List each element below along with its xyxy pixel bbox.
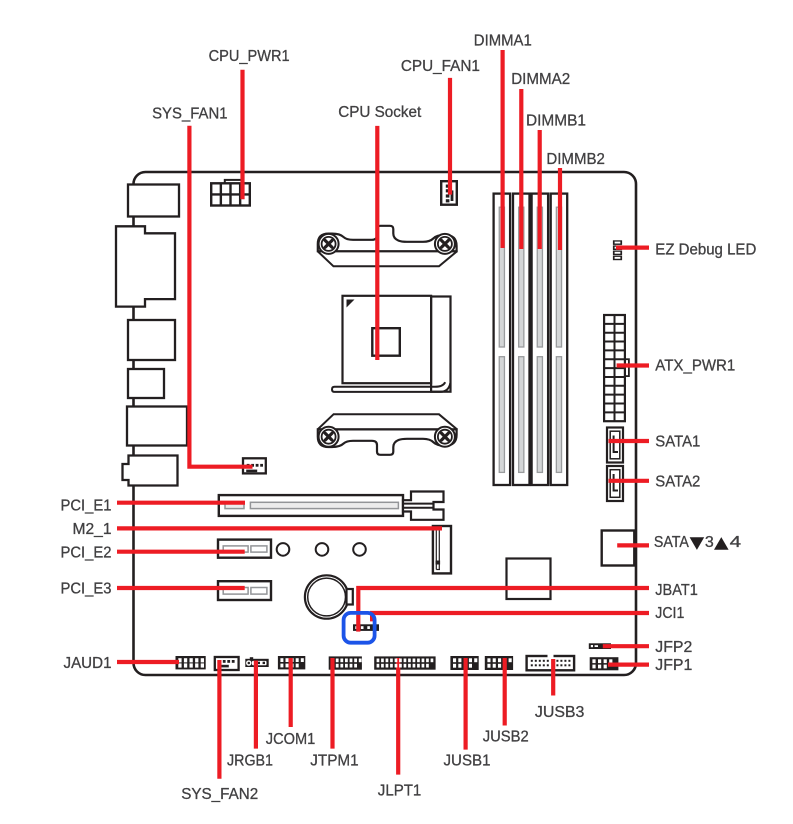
svg-text:SATA1: SATA1 [655, 434, 700, 451]
cpu retention bracket top [318, 226, 457, 266]
connector JCOM1 [278, 656, 305, 669]
connector JAUD1 [176, 656, 206, 669]
leader JBAT1 [358, 588, 649, 632]
svg-text:JTPM1: JTPM1 [310, 753, 359, 770]
leader JRGB1 [254, 661, 258, 749]
leader JCOM1 [289, 658, 293, 727]
leader CPU Socket [375, 126, 379, 360]
leader PCI_E3 [117, 586, 245, 590]
svg-text:JLPT1: JLPT1 [378, 782, 422, 799]
leader JUSB1 [464, 658, 468, 750]
svg-text:ATX_PWR1: ATX_PWR1 [655, 357, 735, 374]
connector SYS_FAN1 [243, 458, 266, 473]
leader ATX_PWR1 [617, 363, 649, 367]
mounting hole 2 [316, 543, 329, 556]
EZ Debug LED block [613, 240, 622, 260]
slot PCI_E1 [219, 492, 444, 520]
leader JUSB2 [503, 658, 507, 726]
svg-text:JFP1: JFP1 [655, 657, 692, 674]
leader EZ Debug LED [616, 246, 649, 250]
leader JAUD1 [117, 660, 179, 664]
svg-text:SATA2: SATA2 [655, 474, 700, 491]
svg-text:CPU_PWR1: CPU_PWR1 [209, 48, 290, 65]
svg-text:DIMMB2: DIMMB2 [546, 151, 605, 168]
DIMM slot DIMMB1 [532, 194, 549, 485]
svg-text:JUSB2: JUSB2 [483, 729, 529, 746]
svg-text:SATA: SATA [654, 534, 689, 551]
leader SYS_FAN2 [217, 660, 221, 779]
mounting hole 3 [353, 543, 366, 556]
connector JUSB2 [485, 656, 513, 670]
leader SATA3/4 [617, 543, 649, 547]
leader PCI_E1 [117, 501, 245, 505]
connector ATX_PWR1 [604, 315, 629, 421]
leader SYS_FAN1 [189, 126, 252, 467]
leader JLPT1 [396, 658, 400, 775]
JUSB3 pin dots (over nothing, under red) [531, 660, 571, 667]
svg-text:4: 4 [730, 534, 742, 551]
DIMM slot DIMMB2 [551, 194, 568, 485]
board outline [134, 172, 637, 675]
svg-text:DIMMA2: DIMMA2 [511, 71, 570, 88]
connector JRGB1 [245, 657, 268, 667]
svg-text:JBAT1: JBAT1 [655, 582, 698, 599]
slot PCI_E2 [218, 540, 271, 558]
slot PCI_E3 [218, 581, 271, 600]
connector JFP1 [590, 657, 619, 670]
svg-text:CPU Socket: CPU Socket [338, 104, 422, 121]
battery [305, 575, 353, 618]
svg-text:DIMMB1: DIMMB1 [526, 113, 586, 130]
connector JUSB3 [527, 654, 575, 670]
connector JUSB1 [450, 656, 478, 670]
svg-text:JCOM1: JCOM1 [266, 731, 316, 748]
leader DIMMB1 [538, 130, 542, 249]
io port box 1 [128, 185, 179, 217]
CPU socket [332, 296, 451, 392]
svg-text:SYS_FAN2: SYS_FAN2 [181, 786, 258, 803]
JLPT1 pins [377, 659, 434, 668]
connector CPU_FAN1 [441, 181, 457, 205]
svg-text:JFP2: JFP2 [655, 639, 692, 656]
svg-text:JAUD1: JAUD1 [64, 655, 112, 672]
connector SATA3/4 [602, 531, 635, 566]
jumper JBAT1/JCI1 pins [353, 624, 379, 631]
leader JFP2 [603, 644, 649, 648]
svg-text:EZ Debug LED: EZ Debug LED [655, 242, 756, 259]
svg-text:JUSB3: JUSB3 [535, 704, 585, 721]
connector SATA1 [607, 428, 623, 463]
svg-text:SYS_FAN1: SYS_FAN1 [152, 106, 228, 123]
connector CPU_PWR1 [211, 180, 250, 206]
label SATA3/4 [654, 534, 741, 551]
connector JTPM1 [329, 656, 362, 669]
leader CPU_PWR1 [240, 70, 244, 200]
connector JFP2 [589, 643, 611, 649]
DIMM slot DIMMA2 [513, 194, 530, 485]
leader M2_1 [117, 526, 442, 530]
leader DIMMA2 [519, 89, 523, 249]
chipset square [507, 559, 551, 600]
mounting hole 1 [277, 543, 290, 556]
io port box 2 (D-sub) [116, 226, 175, 306]
slot M2_1 [433, 526, 451, 573]
svg-text:PCI_E3: PCI_E3 [61, 581, 112, 598]
svg-text:JRGB1: JRGB1 [227, 753, 273, 770]
io port box 6 (audio) [123, 456, 178, 486]
leader JCI1 [372, 613, 649, 621]
leader CPU_FAN1 [448, 78, 452, 195]
io port box 4 [128, 369, 164, 398]
leader SATA2 [609, 479, 650, 483]
io port box 5 [127, 407, 187, 446]
leader PCI_E2 [117, 550, 245, 554]
connector JLPT1 [374, 656, 435, 669]
cpu retention bracket bottom (mirrored) [318, 414, 457, 455]
connector SYS_FAN2 [215, 657, 239, 670]
svg-text:3: 3 [705, 534, 714, 551]
svg-text:PCI_E2: PCI_E2 [61, 545, 112, 562]
leader DIMMB2 [558, 168, 562, 250]
leader JFP1 [608, 662, 649, 666]
svg-text:JUSB1: JUSB1 [444, 753, 491, 770]
highlight box JBAT1 (blue) [344, 613, 375, 643]
svg-text:M2_1: M2_1 [73, 521, 112, 538]
leader SATA1 [609, 439, 650, 443]
DIMM slot DIMMA1 [494, 194, 511, 485]
leader DIMMA1 [501, 50, 505, 248]
leader JTPM1 [330, 658, 334, 749]
svg-text:JCI1: JCI1 [655, 605, 684, 622]
leader JUSB3 [551, 659, 555, 696]
svg-text:DIMMA1: DIMMA1 [474, 33, 532, 50]
svg-text:PCI_E1: PCI_E1 [61, 498, 112, 515]
svg-text:CPU_FAN1: CPU_FAN1 [401, 58, 480, 75]
io port box 3 [128, 320, 175, 360]
connector SATA2 [607, 466, 623, 501]
